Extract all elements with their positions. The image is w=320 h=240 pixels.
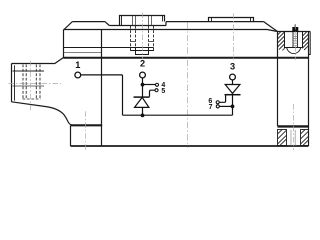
left wall hatching (278, 32, 285, 51)
left tab slot lower solid line (13, 85, 45, 87)
module left tab left edge inner line (14, 65, 16, 100)
left tab hidden slot dashed verticals (23, 65, 40, 100)
baseplate bottom line (71, 145, 309, 147)
module left tab top edge (12, 58, 64, 64)
module back edge step slant (105, 22, 109, 26)
mounting pocket bottom dip (287, 48, 301, 54)
left tab slot upper solid line (13, 70, 45, 72)
right base hatch box right (301, 130, 309, 146)
terminal block 1 inner edge ticks (122, 16, 163, 26)
right base hatch diagonals (278, 130, 309, 146)
terminal 3 circle (230, 74, 236, 80)
left tab hole horizontal centerline (9, 83, 62, 85)
node junction at terminal 2 (141, 83, 145, 87)
terminal 1 screw hidden washer dashes (131, 41, 154, 43)
module front face thin groove line A (64, 47, 154, 49)
svg-text:2: 2 (140, 59, 145, 69)
node junction V2 cathode (231, 105, 235, 109)
terminal block 1 centerline (142, 13, 144, 60)
terminal 1 circle (75, 72, 81, 78)
right screw centerline upper (295, 24, 297, 60)
wire V2 cathode to bus (232, 93, 234, 115)
terminal block 2 inner edge ticks (212, 18, 251, 22)
module front face thick mid line (64, 57, 309, 59)
thyristor V1 triangle (135, 97, 149, 107)
wire terminal 2 down (142, 78, 144, 97)
wire node to pin 4 (143, 84, 156, 86)
wire terminal 1 to corner (81, 74, 123, 76)
module back top edge main (166, 21, 264, 23)
thyristor V1 cathode bar (134, 96, 150, 98)
module front-left vertical edge (63, 30, 65, 58)
terminal 1 screw nut inner box (136, 48, 149, 55)
node junction V1 anode on bus (141, 114, 145, 118)
thyristor V2 cathode bar (225, 94, 241, 96)
mounting screw slot (294, 24, 296, 27)
pin 7 circle (216, 105, 219, 108)
module left tab bottom edge and S-curve to foot (12, 102, 72, 125)
terminal 1 screw nut outer box (131, 48, 154, 51)
terminal block 2 outline (209, 18, 254, 22)
svg-text:1: 1 (75, 60, 80, 70)
right base bolt hole light lines (291, 130, 295, 146)
right base hatch box left (278, 130, 287, 146)
right end section left wall inner vertical (284, 32, 286, 49)
mounting screw thread ticks (293, 34, 298, 46)
wire pin 7 to cathode node (219, 105, 231, 107)
svg-text:3: 3 (230, 62, 235, 72)
mounting screw head (292, 27, 298, 32)
thyristor V2 triangle (225, 85, 240, 94)
module top-left corner slant (64, 22, 73, 30)
module back edge step at block 1 right (165, 22, 167, 26)
terminal block 2 centerline (233, 14, 235, 60)
baseplate left foot left vertical (70, 125, 72, 146)
baseplate left foot top thick line (71, 124, 103, 126)
terminal block 1 hidden screw head lines (133, 16, 152, 26)
module right edge (308, 32, 310, 147)
wire V1 anode to bus (142, 107, 144, 115)
pin 6 circle (216, 101, 219, 104)
right end section top edge (278, 31, 311, 33)
module front top edge (64, 30, 278, 32)
left tab hidden slot dashed bottom (23, 98, 41, 100)
terminal block 1 outline (120, 16, 165, 26)
svg-text:7: 7 (209, 104, 213, 111)
pin 5 circle (155, 89, 158, 92)
module front face thin groove line B (64, 52, 102, 54)
baseplate right block bottom thick line (278, 125, 309, 127)
mounting pocket floor (285, 47, 303, 49)
wire pin 5 gate lead (150, 90, 155, 97)
module back low edge under terminal block 1 (109, 25, 166, 27)
right wall hatching (303, 32, 309, 50)
right end section right wall inner vertical (302, 32, 304, 49)
wire terminal 3 down (232, 80, 234, 85)
terminal 1 screw hidden hole dashed lines (131, 26, 154, 47)
svg-text:5: 5 (161, 88, 165, 95)
right end section outer wall line (309, 32, 311, 55)
wire bottom bus (123, 114, 233, 116)
mounting screw shaft (293, 32, 298, 48)
module left tab left edge (11, 64, 13, 102)
center section front-left vertical (101, 30, 103, 146)
left foot bolt centerline (85, 111, 87, 150)
wire corner down to bus (122, 75, 124, 115)
right bolt centerline lower (293, 104, 295, 150)
module back top edge left tall section (72, 21, 105, 23)
module back top edge right bevel (264, 22, 278, 32)
schematic (75, 72, 241, 117)
left tab hole vertical centerline (30, 61, 32, 111)
pin 4 circle (155, 83, 158, 86)
section centerline mid module (187, 23, 189, 149)
right end section left wall outer vertical (277, 32, 279, 127)
wire pin 6 gate lead (219, 95, 225, 102)
terminal 2 circle (140, 72, 146, 78)
